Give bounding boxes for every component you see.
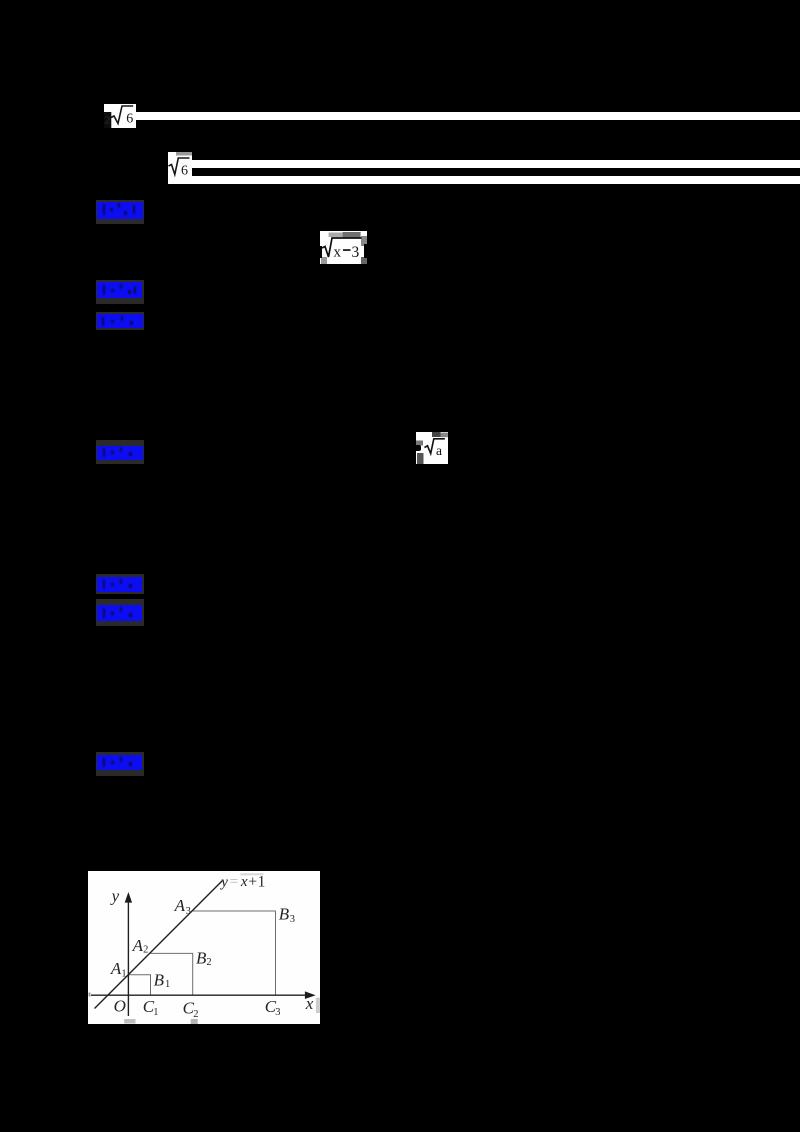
svg-text:x: x	[305, 994, 314, 1013]
svg-text:2: 2	[143, 944, 148, 955]
svg-text:6: 6	[126, 112, 133, 127]
svg-text:x: x	[240, 874, 248, 890]
svg-text:+: +	[248, 873, 257, 890]
svg-text:2: 2	[206, 957, 211, 968]
svg-text:A: A	[132, 936, 144, 955]
svg-text:3: 3	[186, 906, 191, 917]
svg-text:1: 1	[153, 1007, 158, 1018]
svg-text:1: 1	[258, 874, 266, 891]
svg-text:3: 3	[290, 914, 295, 925]
svg-text:1: 1	[165, 979, 170, 990]
svg-text:A: A	[174, 896, 186, 915]
svg-text:B: B	[279, 904, 290, 923]
svg-text:x: x	[334, 245, 342, 261]
svg-text:B: B	[196, 949, 207, 968]
svg-text:A: A	[110, 959, 122, 978]
svg-text:a: a	[436, 443, 442, 458]
svg-text:2: 2	[105, 115, 111, 127]
svg-text:1: 1	[121, 969, 126, 980]
svg-text:O: O	[114, 996, 126, 1015]
svg-text:3: 3	[275, 1007, 280, 1018]
svg-text:6: 6	[181, 164, 188, 179]
svg-text:B: B	[154, 971, 165, 990]
svg-text:2: 2	[193, 1009, 198, 1020]
svg-text:y: y	[110, 886, 120, 905]
svg-text:3: 3	[352, 244, 360, 261]
svg-text:=: =	[230, 874, 238, 890]
svg-text:y: y	[219, 874, 228, 890]
